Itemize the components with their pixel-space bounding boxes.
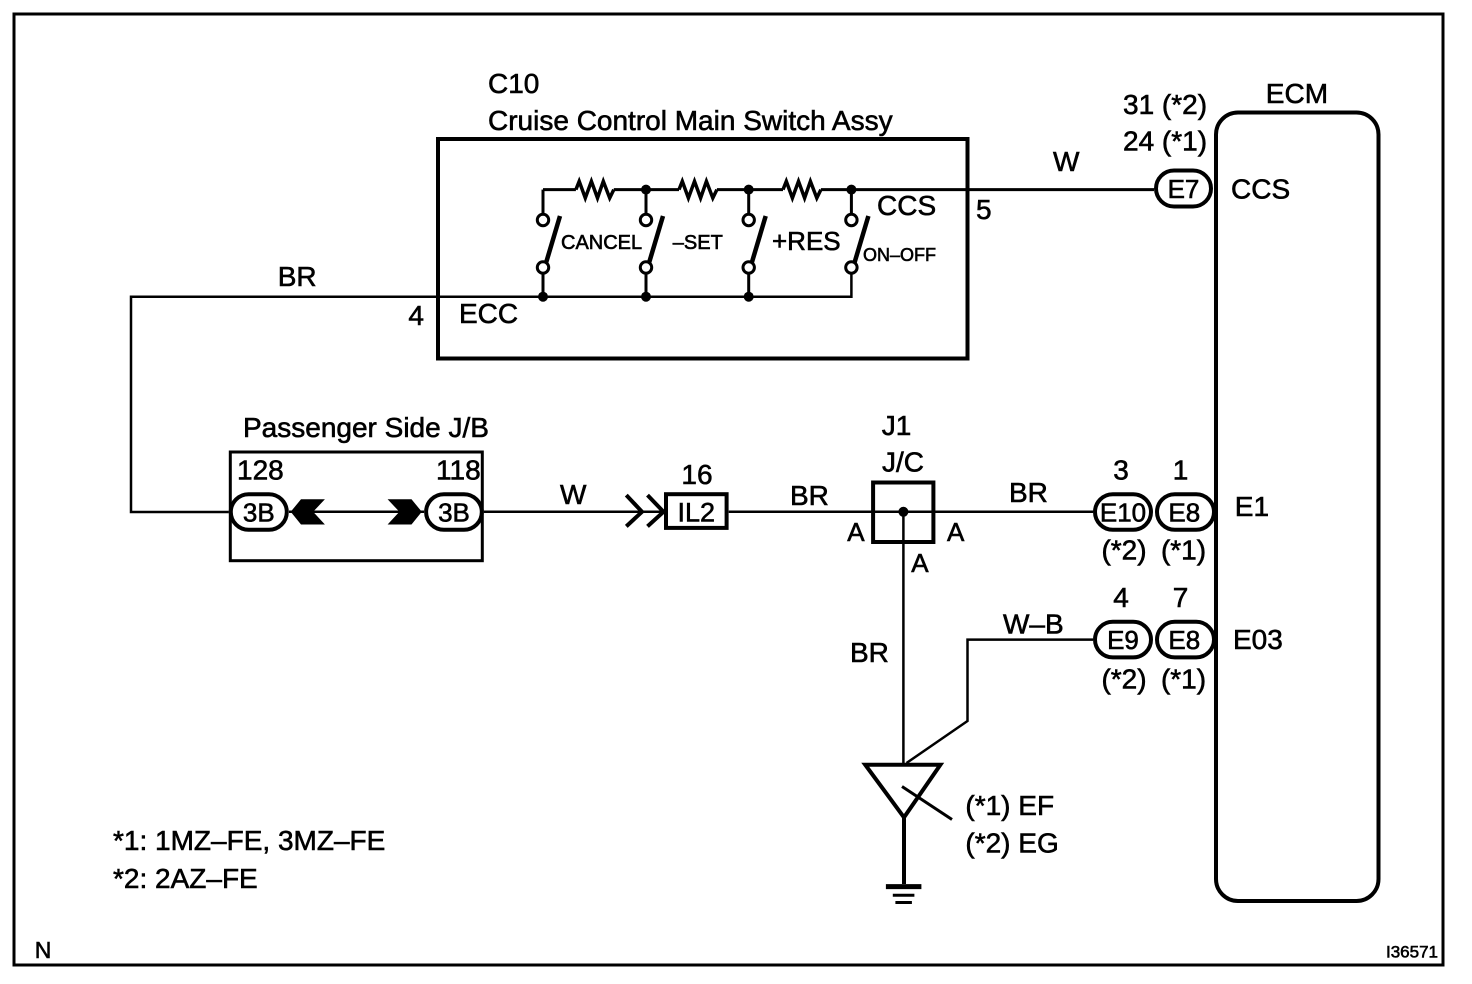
junction node on rail col4 bbox=[846, 185, 856, 195]
svg-text:7: 7 bbox=[1173, 582, 1189, 613]
resistor R1 bbox=[576, 181, 614, 198]
svg-text:CCS: CCS bbox=[1231, 174, 1290, 205]
svg-text:A: A bbox=[847, 517, 865, 547]
leader line to ground labels bbox=[902, 787, 952, 820]
svg-text:(*2): (*2) bbox=[1101, 535, 1146, 566]
junction node bottom rail col3 bbox=[744, 292, 754, 302]
svg-text:31 (*2): 31 (*2) bbox=[1123, 89, 1207, 120]
switch ON-OFF bbox=[846, 190, 936, 274]
junction node bottom rail col2 bbox=[641, 292, 651, 302]
svg-text:+RES: +RES bbox=[772, 226, 841, 256]
svg-text:BR: BR bbox=[1009, 477, 1048, 508]
svg-text:–SET: –SET bbox=[673, 232, 723, 254]
svg-text:N: N bbox=[35, 937, 52, 963]
svg-text:128: 128 bbox=[237, 454, 284, 485]
svg-text:BR: BR bbox=[850, 637, 889, 668]
junction block Passenger Side J/B bbox=[230, 452, 482, 561]
svg-text:C10: C10 bbox=[488, 68, 539, 99]
wire ECC bottom rail to J/B bbox=[131, 273, 851, 512]
svg-text:3B: 3B bbox=[243, 498, 275, 528]
connector E7 bbox=[1156, 171, 1211, 207]
svg-text:3B: 3B bbox=[438, 498, 470, 528]
svg-text:1: 1 bbox=[1173, 455, 1189, 486]
connector 3B left bbox=[231, 494, 287, 530]
ECM box bbox=[1216, 113, 1379, 902]
chevron splice marks bbox=[626, 495, 663, 526]
svg-text:E8: E8 bbox=[1168, 625, 1200, 655]
svg-text:ECM: ECM bbox=[1266, 78, 1328, 109]
svg-text:Cruise Control Main Switch Ass: Cruise Control Main Switch Assy bbox=[488, 105, 893, 136]
svg-text:*2: 2AZ–FE: *2: 2AZ–FE bbox=[113, 863, 258, 894]
svg-text:I36571: I36571 bbox=[1386, 943, 1438, 962]
svg-text:W–B: W–B bbox=[1003, 609, 1064, 640]
arrow right bbox=[388, 499, 422, 524]
svg-text:E10: E10 bbox=[1100, 498, 1146, 528]
svg-text:A: A bbox=[911, 548, 929, 578]
connector E8 lower bbox=[1157, 622, 1214, 658]
svg-text:ON–OFF: ON–OFF bbox=[863, 245, 936, 265]
wire top rail CCS bbox=[543, 188, 1154, 191]
svg-text:BR: BR bbox=[790, 480, 829, 511]
resistor R3 bbox=[783, 181, 821, 198]
ground triangle EF/EG bbox=[865, 765, 940, 818]
switch +RES bbox=[743, 190, 841, 297]
connector E8 upper bbox=[1157, 494, 1214, 530]
wire 3B to IL2 bbox=[484, 511, 664, 514]
svg-text:E8: E8 bbox=[1168, 498, 1200, 528]
connector 3B right bbox=[426, 494, 482, 530]
svg-text:E1: E1 bbox=[1235, 491, 1269, 522]
svg-text:(*2): (*2) bbox=[1101, 664, 1146, 695]
node dot in J/C bbox=[898, 507, 908, 517]
connector E10 bbox=[1095, 494, 1151, 530]
ground symbol bbox=[886, 817, 922, 902]
svg-text:(*1): (*1) bbox=[1161, 535, 1206, 566]
connector E9 bbox=[1095, 622, 1151, 658]
junction node bottom rail col1 bbox=[538, 292, 548, 302]
svg-text:3: 3 bbox=[1113, 455, 1129, 486]
svg-text:Passenger Side J/B: Passenger Side J/B bbox=[243, 412, 489, 443]
svg-text:J/C: J/C bbox=[882, 447, 924, 478]
wire BR down from J/C bbox=[902, 512, 905, 765]
wire IL2 to J/C bbox=[729, 511, 1093, 514]
junction node on rail col3 bbox=[744, 185, 754, 195]
resistor R2 bbox=[679, 181, 717, 198]
svg-text:E9: E9 bbox=[1107, 625, 1139, 655]
switch CANCEL bbox=[537, 190, 642, 297]
svg-text:E03: E03 bbox=[1233, 624, 1283, 655]
svg-text:4: 4 bbox=[408, 300, 424, 331]
wire W-B from ground to E9 bbox=[907, 640, 1094, 763]
svg-text:118: 118 bbox=[436, 454, 481, 485]
svg-text:(*1) EF: (*1) EF bbox=[965, 790, 1054, 821]
svg-text:A: A bbox=[947, 517, 965, 547]
svg-text:W: W bbox=[560, 479, 587, 510]
svg-text:(*1): (*1) bbox=[1161, 664, 1206, 695]
svg-text:W: W bbox=[1053, 146, 1080, 177]
arrow left bbox=[291, 499, 325, 524]
svg-text:*1: 1MZ–FE, 3MZ–FE: *1: 1MZ–FE, 3MZ–FE bbox=[113, 825, 385, 856]
switch -SET bbox=[640, 190, 723, 297]
svg-text:J1: J1 bbox=[882, 410, 912, 441]
svg-text:IL2: IL2 bbox=[678, 497, 716, 527]
svg-text:CCS: CCS bbox=[877, 190, 936, 221]
svg-text:16: 16 bbox=[681, 459, 712, 490]
svg-text:24 (*1): 24 (*1) bbox=[1123, 125, 1207, 156]
svg-text:5: 5 bbox=[976, 194, 992, 225]
switch assembly C10 box bbox=[438, 139, 968, 359]
svg-text:CANCEL: CANCEL bbox=[561, 232, 642, 254]
svg-text:4: 4 bbox=[1113, 582, 1129, 613]
svg-text:BR: BR bbox=[278, 261, 317, 292]
junction node on rail col2 bbox=[641, 185, 651, 195]
junction connector J1 J/C bbox=[873, 483, 933, 543]
svg-text:ECC: ECC bbox=[459, 298, 518, 329]
svg-text:(*2) EG: (*2) EG bbox=[965, 827, 1058, 858]
wire between 3B connectors bbox=[289, 511, 424, 514]
svg-text:E7: E7 bbox=[1168, 174, 1200, 204]
connector IL2 bbox=[666, 494, 727, 528]
